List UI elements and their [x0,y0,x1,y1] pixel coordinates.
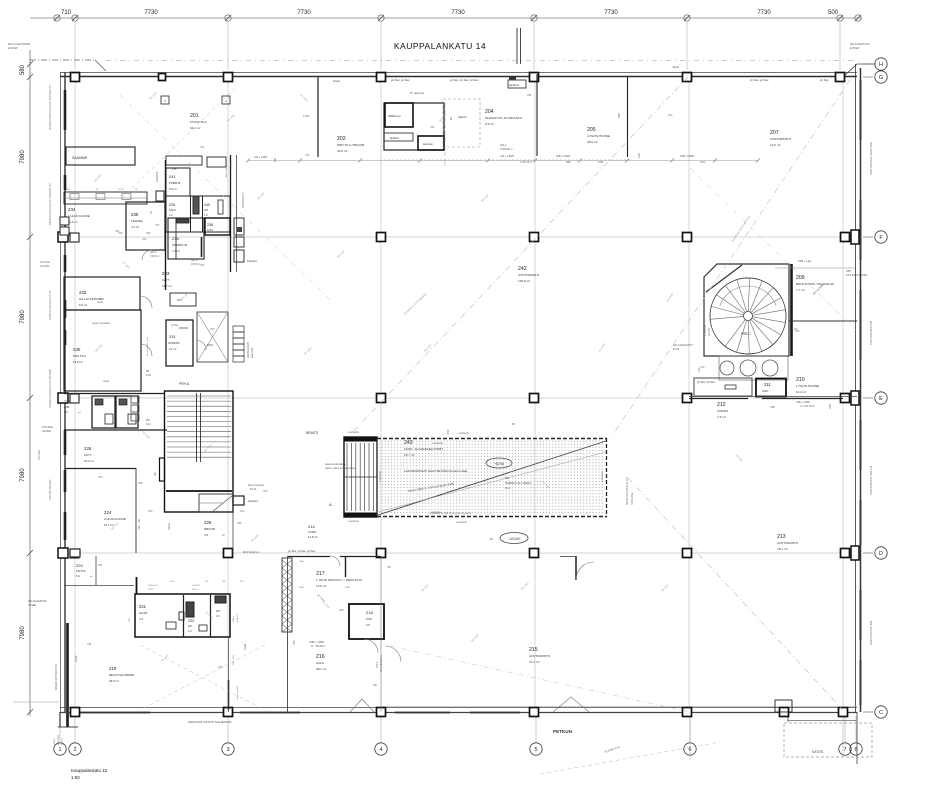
svg-text:SUKS-: SUKS- [54,738,56,745]
svg-text:LAKIUPORTAAT SÄILYTETÄÄN (kunn: LAKIUPORTAAT SÄILYTETÄÄN (kunnen alla) [404,469,467,473]
svg-text:V50: V50 [263,490,268,493]
svg-text:1 HLÖN MAKUUH. > PESUTILAT: 1 HLÖN MAKUUH. > PESUTILAT [316,578,363,582]
svg-text:hällihuone: hällihuone [388,114,401,118]
svg-text:KEITVK.: KEITVK. [76,569,87,573]
svg-text:241: 241 [169,174,176,179]
svg-text:V50: V50 [200,146,205,149]
svg-text:207: 207 [770,130,779,136]
svg-text:KRW HKV5 %18 HKW: KRW HKV5 %18 HKW [870,320,873,345]
svg-text:6BB: 6BB [566,161,571,164]
svg-text:m²: m² [222,534,225,537]
svg-text:580: 580 [20,64,26,75]
svg-text:23.2 m²: 23.2 m² [84,459,94,463]
svg-text:BRUM ALUMILA ALULT, KÄYNNIN /P: BRUM ALUMILA ALULT, KÄYNNIN /PP [49,183,52,225]
svg-text:V50: V50 [700,366,705,369]
svg-text:BRUKSI PRS / PIKAPALAK: BRUKSI PRS / PIKAPALAK [796,282,835,286]
svg-text:SBK-1: SBK-1 [191,260,198,262]
svg-text:7980: 7980 [20,626,26,640]
svg-text:B.vB: B.vB [146,375,151,377]
svg-text:rälacim: rälacim [458,115,468,119]
svg-text:kahvlaut.: kahvlaut. [248,499,259,503]
svg-text:näytiö: näytiö [75,655,78,662]
svg-text:V55: V55 [237,522,242,525]
svg-text:WC: WC [188,624,192,628]
svg-text:LSB-1: LSB-1 [233,615,235,622]
svg-text:VS2: VS2 [447,429,450,434]
svg-text:227: 227 [64,400,70,404]
svg-text:PRH.TILA / BRUVB: PRH.TILA / BRUVB [337,143,364,147]
svg-text:4.3: 4.3 [204,533,208,537]
svg-text:TEHVEH: TEHVEH [131,219,143,223]
svg-text:AULA: AULA [316,661,325,665]
svg-text:9.5 m²: 9.5 m² [485,122,494,126]
svg-text:L5B + L8b: L5B + L8b [138,518,141,530]
svg-text:213: 213 [777,534,786,540]
svg-text:nääriä: nääriä [168,523,171,530]
svg-text:BRASTI: BRASTI [306,431,318,435]
svg-text:95B: 95B [275,157,277,162]
svg-text:L5B + L86/6: L5B + L86/6 [556,154,571,158]
svg-text:OKW HKV5 %18 HKW S10: OKW HKV5 %18 HKW S10 [870,465,873,495]
svg-text:E: E [879,396,883,402]
svg-text:214: 214 [308,524,315,529]
svg-text:yö Sov. yö Sov. yö Sov.: yö Sov. yö Sov. yö Sov. [288,549,316,553]
svg-text:näytiö: näytiö [244,643,247,650]
svg-text:7.6 m²: 7.6 m² [717,415,726,419]
svg-text:7730: 7730 [297,10,311,16]
svg-text:710: 710 [61,10,72,16]
svg-text:BELVST.ELUBÖNE: BELVST.ELUBÖNE [109,673,134,677]
svg-text:yö Sov.: yö Sov. [171,324,179,327]
svg-text:Kauppalankatu 12: Kauppalankatu 12 [71,768,108,773]
svg-text:221-1: 221-1 [148,589,154,591]
svg-text:SUURIM: SUURIM [40,265,49,268]
svg-text:NSO: NSO [700,161,705,164]
svg-text:RC OB: RC OB [708,328,711,336]
svg-text:MUILTVULONUS EI SU: MUILTVULONUS EI SU [625,477,629,505]
svg-text:7.6 m²: 7.6 m² [172,249,180,253]
svg-text:V50: V50 [148,510,153,513]
svg-text:V50: V50 [339,608,344,612]
svg-text:236: 236 [172,236,179,241]
svg-text:205: 205 [587,127,596,133]
svg-text:KL. H06-B0-0: KL. H06-B0-0 [311,646,326,648]
svg-text:234: 234 [68,207,76,212]
svg-text:tasanne istuskelu: tasanne istuskelu [325,462,346,466]
svg-text:L52 + L86/6: L52 + L86/6 [500,154,514,158]
svg-text:90 98: 90 98 [118,189,124,191]
svg-text:239: 239 [169,203,175,207]
svg-text:KÄYT.: KÄYT. [162,278,170,282]
svg-text:2.1 m²: 2.1 m² [169,347,176,351]
svg-text:43.9 m²: 43.9 m² [337,149,348,153]
svg-text:202: 202 [337,136,346,142]
svg-text:VSS: VSS [218,666,223,669]
svg-text:V50: V50 [795,330,800,333]
svg-text:238: 238 [207,223,213,227]
svg-text:0 V50: 0 V50 [303,115,310,118]
svg-text:OBT: OBT [846,269,852,273]
svg-text:2 HLÖN HUONE: 2 HLÖN HUONE [104,517,126,521]
svg-text:V51: V51 [98,564,103,567]
svg-text:Lasikaide: Lasikaide [348,519,360,523]
svg-text:PSH: PSH [366,617,372,621]
svg-text:V5I: V5I [373,683,377,687]
svg-text:L52 + L86/6: L52 + L86/6 [254,156,268,159]
svg-text:1.5: 1.5 [188,629,192,633]
svg-text:SBK-1: SBK-1 [150,252,157,254]
svg-text:243: 243 [404,440,413,446]
svg-text:kapokunz: kapokunz [509,84,520,87]
svg-text:LE-WT: LE-WT [139,611,148,615]
svg-text:0 9x21-2: 0 9x21-2 [237,613,239,622]
svg-text:SUURIL: SUURIL [42,429,52,433]
svg-text:210: 210 [796,377,805,383]
svg-text:14.8 m²: 14.8 m² [308,535,318,539]
svg-text:230: 230 [73,347,81,352]
svg-text:V50: V50 [305,154,310,157]
svg-text:209: 209 [796,275,805,281]
svg-text:KUPKI: KUPKI [308,530,317,534]
svg-text:V50: V50 [210,328,215,331]
svg-text:224: 224 [104,510,112,515]
svg-text:KATOS.: KATOS. [812,750,824,754]
svg-text:V50: V50 [99,298,104,301]
svg-text:PETKUN: PETKUN [553,729,573,734]
svg-text:SISÄÄN KÄYTÄVÄT PO: SISÄÄN KÄYTÄVÄT PO [55,664,58,690]
svg-text:yö Sov. yö Sov. yö Sov.: yö Sov. yö Sov. yö Sov. [450,78,479,82]
svg-text:1.6: 1.6 [216,614,220,618]
svg-text:0 10x21-1: 0 10x21-1 [148,585,159,587]
svg-text:KODNS: KODNS [717,409,728,413]
svg-text:19.9 m²: 19.9 m² [73,360,83,364]
svg-text:Lasikaide: Lasikaide [458,431,470,435]
svg-text:0 9x21-1: 0 9x21-1 [192,585,201,587]
svg-text:P8: P8 [505,476,509,480]
svg-text:yö Sov.: yö Sov. [820,78,829,82]
svg-text:500: 500 [828,10,839,16]
svg-text:V50: V50 [118,232,123,235]
svg-text:L5B + L86/6: L5B + L86/6 [680,154,695,158]
svg-text:WL3 10x6x20-4: WL3 10x6x20-4 [380,655,383,672]
svg-text:HUONE ALUMILA ALULT, KÄYNNIN: HUONE ALUMILA ALULT, KÄYNNIN [49,369,52,408]
svg-text:V50: V50 [98,476,103,479]
svg-text:KTS.RAK: KTS.RAK [40,261,51,264]
svg-text:näytöl: näytöl [672,65,679,69]
svg-text:lauk SPB: lauk SPB [251,347,254,358]
svg-text:1.2: 1.2 [169,213,173,217]
svg-text:PM: PM [146,419,150,422]
svg-text:204: 204 [485,109,494,115]
svg-text:7980: 7980 [20,468,26,482]
svg-text:A.: A. [329,502,333,507]
svg-text:V5I: V5I [387,565,391,569]
svg-text:IT -asunne: IT -asunne [410,91,425,95]
svg-text:231: 231 [169,334,176,339]
svg-text:218: 218 [366,610,373,615]
svg-text:käytiä: käytiä [333,79,340,83]
svg-text:53 41: 53 41 [250,488,257,491]
svg-text:kahvlaut.: kahvlaut. [247,259,258,263]
svg-text:Lasikaide: Lasikaide [378,470,382,482]
svg-text:KRW HKV5 %18, SAKW, AKW: KRW HKV5 %18, SAKW, AKW [870,141,873,175]
svg-text:PRB C: PRB C [741,332,751,336]
svg-text:SÄH1: SÄH1 [169,208,176,212]
svg-text:235: 235 [131,212,139,217]
svg-text:-103.0M: -103.0M [508,537,520,541]
svg-text:V50: V50 [142,238,147,241]
svg-text:Lasikaide: Lasikaide [600,470,604,482]
svg-text:222: 222 [188,619,194,623]
svg-text:7.7 m²: 7.7 m² [796,288,805,292]
svg-text:mage / hoordiaste: mage / hoordiaste [92,322,111,325]
svg-text:64.1 m²: 64.1 m² [190,126,201,130]
svg-text:Lasikaide: Lasikaide [348,430,360,434]
svg-text:OLESISTUS JA VARASTO: OLESISTUS JA VARASTO [485,116,523,120]
svg-text:V50: V50 [146,232,151,235]
svg-text:Lasikaide: Lasikaide [432,441,444,445]
svg-text:201: 201 [190,113,199,119]
svg-text:222-1: 222-1 [192,589,198,591]
svg-text:EI MSW: EI MSW [8,46,18,50]
svg-text:AVOTOIMISTO: AVOTOIMISTO [777,541,799,545]
svg-text:146.8 m²: 146.8 m² [518,279,530,283]
svg-text:m²: m² [90,575,93,578]
svg-text:V50: V50 [617,113,621,118]
svg-text:varten, katso erillispiirustus: varten, katso erillispiirustus [325,467,356,470]
svg-text:1MB: 1MB [598,161,603,164]
svg-text:LIIKKUVAT, KÄYNTI SULJETAAN: LIIKKUVAT, KÄYNTI SULJETAAN [188,720,231,724]
svg-text:b. BK 88 N: b. BK 88 N [520,161,532,164]
svg-text:C: C [879,710,883,716]
svg-text:KTS.RAKKUUNNL: KTS.RAKKUUNNL [846,273,868,277]
svg-text:L5B + L8v: L5B + L8v [233,654,235,665]
svg-text:+82.98: +82.98 [494,462,504,466]
svg-text:näytiö: näytiö [97,301,104,304]
svg-text:1: 1 [58,747,61,753]
svg-text:25.6 m²: 25.6 m² [587,140,598,144]
svg-text:OKW HKV5 %18 HKW: OKW HKV5 %18 HKW [870,620,873,645]
svg-text:HUONE ALBNNILA ALULT, KÄYNNIN: HUONE ALBNNILA ALULT, KÄYNNIN /PP [49,85,52,130]
svg-text:V5B: V5B [828,404,832,409]
svg-text:211: 211 [764,382,771,387]
svg-text:PRH A.: PRH A. [179,382,190,386]
svg-text:4: 4 [379,747,382,753]
svg-text:2: 2 [73,747,76,753]
svg-text:3: 3 [226,747,229,753]
svg-text:1 HLÖN HUONE: 1 HLÖN HUONE [796,384,819,388]
svg-text:19.7 m²: 19.7 m² [404,453,415,457]
svg-text:78.1 m²: 78.1 m² [777,547,788,551]
svg-text:7980: 7980 [20,150,26,164]
svg-text:NSS: NSS [638,153,641,158]
svg-text:AVOTOIMISTO: AVOTOIMISTO [518,273,540,277]
svg-text:AVOTOIMISTO: AVOTOIMISTO [770,137,792,141]
svg-text:0 8X3x21 1: 0 8X3x21 1 [500,148,513,151]
svg-text:VAATEKAART: VAATEKAART [247,341,250,358]
svg-text:6.5 m²: 6.5 m² [79,303,87,307]
svg-text:215: 215 [529,647,538,653]
svg-text:KRBM ALUMILA ALULT /PP: KRBM ALUMILA ALULT /PP [49,290,52,320]
svg-text:221: 221 [139,604,147,609]
svg-text:laddovi: laddovi [390,136,399,140]
svg-text:V50: V50 [155,224,160,227]
svg-text:232: 232 [79,290,87,295]
svg-text:48.1 m²: 48.1 m² [316,667,327,671]
svg-text:V58: V58 [138,482,143,485]
svg-text:AVOK. JA OLESKELUTSMT.: AVOK. JA OLESKELUTSMT. [404,447,444,451]
svg-text:V50: V50 [668,114,673,117]
svg-text:KAUPPALANKATU 14: KAUPPALANKATU 14 [394,41,486,51]
svg-text:SAAMME: SAAMME [72,156,88,160]
svg-text:14.5 m²: 14.5 m² [316,584,327,588]
svg-text:NBU/VB: NBU/VB [204,527,215,531]
svg-text:L5B2 + L86/6: L5B2 + L86/6 [309,641,325,644]
svg-text:G: G [879,75,883,81]
svg-text:SÄK.: SÄK. [762,389,769,393]
svg-text:V55: V55 [292,640,296,645]
svg-text:5: 5 [534,747,537,753]
svg-text:SOVBINS: SOVBINS [168,341,180,345]
svg-text:V50: V50 [200,264,205,267]
svg-text:4 HLÖN HUONE: 4 HLÖN HUONE [587,134,610,138]
svg-text:AVOTOIMISTO: AVOTOIMISTO [529,654,551,658]
svg-text:1 HLÖN HUONE: 1 HLÖN HUONE [68,214,90,218]
svg-text:yö Sov. yö Sov.: yö Sov. yö Sov. [697,380,716,384]
svg-text:5.5 m²: 5.5 m² [169,187,177,191]
svg-text:V50: V50 [240,510,245,513]
svg-text:V5B: V5B [770,405,775,409]
svg-text:OHRAKULJA / TAKILU: OHRAKULJA / TAKILU [505,481,532,485]
svg-text:KAIVAUT.: KAIVAUT. [156,171,159,182]
svg-text:V5I: V5I [527,93,531,97]
svg-text:PB: PB [146,371,150,373]
svg-text:212: 212 [717,402,726,408]
svg-text:yö Sov. yö Sov.: yö Sov. yö Sov. [750,78,769,82]
svg-text:PALA-MAASTOT: PALA-MAASTOT [673,343,693,347]
svg-text:EI 46: EI 46 [673,347,680,351]
svg-text:29.6 m²: 29.6 m² [109,679,119,683]
svg-text:Sulkyu rva bAb: Sulkyu rva bAb [236,685,239,700]
svg-text:SBI-1 0 9x8-3: SBI-1 0 9x8-3 [226,164,228,178]
svg-text:V59: V59 [87,643,92,646]
svg-text:skurowi: skurowi [423,142,433,146]
svg-text:11.3 m²: 11.3 m² [68,220,78,224]
svg-text:216: 216 [316,654,325,660]
svg-text:V50: V50 [430,126,435,129]
svg-text:H: H [879,62,883,68]
svg-text:WC: WC [216,609,220,613]
svg-text:210-3: 210-3 [376,661,379,668]
svg-text:2 RASTIA: 2 RASTIA [704,325,707,336]
svg-text:SIIRTAKART 2.: SIIRTAKART 2. [242,191,245,208]
svg-text:PALA-KAATOKSET: PALA-KAATOKSET [8,42,31,46]
svg-text:BO: BO [451,116,453,120]
svg-text:AUB: AUB [64,405,70,409]
svg-text:233: 233 [162,271,170,276]
svg-text:220: 220 [76,563,83,568]
svg-text:PELAGAKATOR: PELAGAKATOR [28,600,47,603]
svg-text:WL3 8x4x21-1: WL3 8x4x21-1 [243,551,260,554]
svg-text:IS SER: IS SER [28,604,36,607]
svg-text:225: 225 [204,520,212,525]
svg-text:KÄYT.: KÄYT. [84,453,92,457]
svg-text:11.2 m²: 11.2 m² [796,390,806,394]
svg-text:Lv. H06-H0-B: Lv. H06-H0-B [800,405,815,408]
svg-text:1:50: 1:50 [71,775,80,780]
svg-text:7730: 7730 [757,10,771,16]
svg-text:SÄ: SÄ [153,472,157,476]
svg-text:7980: 7980 [20,310,26,324]
svg-text:71.1 m²: 71.1 m² [529,660,540,664]
svg-text:Lasikaide: Lasikaide [456,520,468,524]
svg-text:PWDRKL/M: PWDRKL/M [172,243,188,247]
svg-text:PRH.TILA: PRH.TILA [73,354,86,358]
svg-text:1860: 1860 [299,561,305,563]
svg-text:L5B + L86/b: L5B + L86/b [796,400,811,404]
svg-text:WS9: WS9 [207,343,213,347]
svg-text:204-1: 204-1 [500,144,507,147]
svg-text:2.5: 2.5 [366,623,370,627]
svg-text:2.2: 2.2 [64,410,68,414]
svg-text:PALA-MAASTOT: PALA-MAASTOT [850,42,870,46]
svg-text:2860: 2860 [299,587,305,589]
svg-text:1880: 1880 [345,587,351,589]
svg-text:KTS.RAK: KTS.RAK [42,425,53,429]
svg-text:L5B + Läry: L5B + Läry [798,259,812,263]
svg-text:SUIV: SUIV [207,228,213,232]
svg-text:242: 242 [518,266,527,272]
svg-text:0 9X21-2: 0 9X21-2 [150,256,160,258]
svg-text:m²: m² [78,411,81,414]
svg-text:näytiö: näytiö [103,380,110,383]
svg-text:240: 240 [204,203,210,207]
svg-text:7: 7 [843,747,846,753]
svg-text:SPOL/JNA: SPOL/JNA [630,492,634,505]
svg-text:KTS.RAK: KTS.RAK [38,449,41,460]
svg-text:7730: 7730 [604,10,618,16]
svg-text:Pesu-huo/naut: Pesu-huo/naut [248,484,265,487]
svg-text:219: 219 [109,666,117,671]
svg-text:KAITTIKA: KAITTIKA [57,735,60,745]
svg-text:19.2 m²: 19.2 m² [770,143,781,147]
svg-text:PI.S VI: PI.S VI [62,738,64,745]
svg-text:7730: 7730 [144,10,158,16]
svg-text:13.7 m²: 13.7 m² [162,284,172,288]
svg-text:1.5: 1.5 [204,213,208,217]
svg-text:226: 226 [84,446,92,451]
svg-text:D: D [879,551,883,557]
svg-text:7730: 7730 [451,10,465,16]
svg-text:8 m²: 8 m² [505,486,510,490]
svg-text:4.1 m²: 4.1 m² [131,225,139,229]
svg-text:Lasikaide KL 400 00-0 g 644: Lasikaide KL 400 00-0 g 644 pinorapat [430,512,471,515]
svg-text:4.3: 4.3 [139,617,143,621]
svg-text:217: 217 [316,571,325,577]
svg-text:yö Sov. yö Sov.: yö Sov. yö Sov. [391,78,410,82]
svg-text:EI MSW: EI MSW [850,46,860,50]
svg-text:5.U: 5.U [76,574,80,578]
svg-text:WX: WX [204,208,208,212]
svg-text:6.42: 6.42 [146,423,151,426]
svg-text:PUB/B./B: PUB/B./B [169,181,181,185]
svg-text:KTS.RAK SUURIM: KTS.RAK SUURIM [49,480,52,500]
